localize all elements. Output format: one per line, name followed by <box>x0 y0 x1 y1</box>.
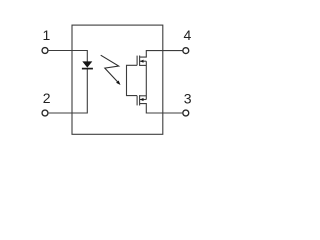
light arrow head <box>116 81 120 86</box>
wire pin1 to LED anode <box>49 51 88 62</box>
pin 3 terminal circle <box>183 110 189 116</box>
LED D1 triangle <box>82 61 92 67</box>
Q1 source stub <box>140 64 147 66</box>
svg-text:3: 3 <box>184 90 192 106</box>
source link Q1-Q2 <box>145 61 147 99</box>
transistor Q1 channel bar <box>139 56 141 66</box>
LED D1 cathode bar <box>82 68 93 70</box>
Q2 source stub <box>140 95 147 97</box>
wire pin2 to LED cathode <box>49 69 88 113</box>
pin 1 terminal circle <box>42 48 48 54</box>
Q2 body arrowhead <box>140 98 144 101</box>
pin 2 terminal circle <box>42 110 48 116</box>
Q2 drain stub and wire to pin 3 <box>140 104 183 113</box>
transistor Q2 gate bar <box>136 96 138 106</box>
transistor Q2 channel bar <box>139 95 141 105</box>
package outline box <box>72 25 163 134</box>
gate rail wire <box>127 65 138 95</box>
light arrow (zigzag) <box>101 55 119 82</box>
Q1 body stub <box>140 60 146 62</box>
svg-text:2: 2 <box>43 90 51 106</box>
Q1 body arrowhead <box>140 60 144 63</box>
Q2 body stub <box>140 99 146 101</box>
Q1 drain stub and wire to pin 4 <box>140 51 183 58</box>
svg-text:1: 1 <box>43 27 51 43</box>
svg-text:4: 4 <box>184 27 192 43</box>
pin 4 terminal circle <box>183 48 189 54</box>
transistor Q1 gate bar <box>136 56 138 66</box>
